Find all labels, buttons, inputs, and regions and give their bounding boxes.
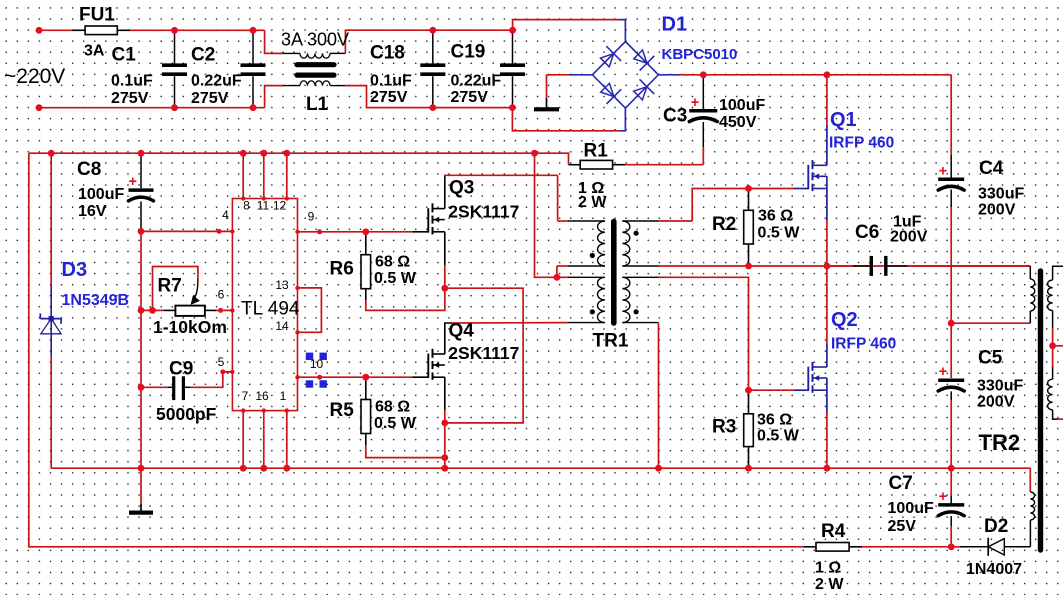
svg-text:0.5 W: 0.5 W	[758, 225, 801, 242]
svg-text:R1: R1	[584, 141, 609, 162]
svg-text:275V: 275V	[370, 89, 408, 106]
svg-text:36 Ω: 36 Ω	[758, 208, 793, 225]
svg-text:25V: 25V	[888, 518, 917, 535]
svg-text:275V: 275V	[451, 89, 489, 106]
svg-text:16V: 16V	[78, 203, 107, 220]
svg-text:14: 14	[275, 319, 289, 333]
svg-text:C9: C9	[169, 359, 193, 380]
svg-text:+: +	[691, 95, 699, 111]
svg-text:100uF: 100uF	[719, 97, 765, 114]
svg-text:3A: 3A	[84, 43, 105, 60]
svg-text:Q3: Q3	[449, 178, 474, 199]
svg-text:1N5349B: 1N5349B	[62, 292, 130, 309]
svg-text:+: +	[939, 163, 947, 179]
svg-text:TL 494: TL 494	[241, 299, 300, 320]
svg-text:D3: D3	[62, 259, 88, 281]
svg-text:5: 5	[218, 355, 225, 369]
svg-text:2SK1117: 2SK1117	[448, 202, 519, 222]
svg-text:4: 4	[222, 208, 229, 222]
svg-text:~220V: ~220V	[4, 65, 65, 88]
svg-text:1N4007: 1N4007	[966, 561, 1022, 578]
svg-text:100uF: 100uF	[78, 186, 124, 203]
svg-text:450V: 450V	[719, 114, 757, 131]
svg-text:+: +	[939, 489, 947, 505]
svg-text:1-10kOm: 1-10kOm	[153, 317, 227, 337]
svg-text:13: 13	[275, 278, 289, 292]
svg-text:R2: R2	[712, 214, 736, 235]
svg-text:330uF: 330uF	[978, 186, 1024, 203]
svg-text:R7: R7	[158, 276, 182, 297]
svg-text:200V: 200V	[890, 229, 928, 246]
svg-text:0.5 W: 0.5 W	[374, 415, 417, 432]
svg-text:C2: C2	[191, 45, 215, 66]
svg-text:0.5 W: 0.5 W	[757, 428, 800, 445]
svg-text:D1: D1	[662, 14, 688, 36]
svg-text:KBPC5010: KBPC5010	[662, 46, 738, 63]
svg-text:10: 10	[310, 357, 324, 371]
svg-text:R3: R3	[712, 417, 736, 438]
svg-text:12: 12	[273, 199, 287, 213]
svg-text:0.5 W: 0.5 W	[374, 270, 417, 287]
svg-text:275V: 275V	[191, 90, 229, 107]
svg-text:5000pF: 5000pF	[156, 404, 217, 424]
svg-text:0.22uF: 0.22uF	[451, 73, 502, 90]
svg-text:275V: 275V	[111, 90, 149, 107]
svg-text:68 Ω: 68 Ω	[375, 254, 410, 271]
svg-text:2 W: 2 W	[578, 194, 607, 211]
svg-text:+: +	[129, 174, 137, 190]
svg-text:C18: C18	[370, 43, 405, 64]
svg-text:C7: C7	[889, 473, 913, 494]
svg-text:R5: R5	[330, 400, 355, 421]
svg-text:8: 8	[243, 199, 250, 213]
svg-text:IRFP 460: IRFP 460	[831, 336, 896, 353]
svg-text:C1: C1	[112, 45, 137, 66]
svg-text:C3: C3	[663, 106, 687, 127]
svg-text:C6: C6	[855, 222, 879, 243]
svg-text:200V: 200V	[977, 394, 1015, 411]
svg-text:TR2: TR2	[979, 430, 1021, 455]
svg-text:3A 300V: 3A 300V	[281, 30, 349, 50]
svg-text:2SK1117: 2SK1117	[448, 343, 519, 363]
svg-text:C8: C8	[77, 159, 101, 180]
svg-text:6: 6	[218, 288, 225, 302]
svg-text:C4: C4	[979, 158, 1004, 179]
svg-text:0.22uF: 0.22uF	[191, 73, 242, 90]
svg-text:1 Ω: 1 Ω	[815, 560, 841, 577]
svg-text:Q4: Q4	[449, 321, 475, 342]
svg-text:FU1: FU1	[79, 5, 115, 26]
svg-text:1: 1	[280, 389, 287, 403]
svg-text:R6: R6	[330, 259, 354, 280]
svg-text:D2: D2	[984, 516, 1008, 537]
svg-text:TR1: TR1	[593, 331, 629, 352]
svg-text:IRFP 460: IRFP 460	[829, 135, 894, 152]
svg-text:Q2: Q2	[831, 309, 858, 331]
svg-text:L1: L1	[306, 94, 329, 115]
svg-text:9: 9	[308, 210, 315, 224]
svg-text:Q1: Q1	[830, 109, 857, 131]
svg-text:2 W: 2 W	[815, 576, 844, 593]
svg-text:0.1uF: 0.1uF	[111, 73, 153, 90]
svg-text:36 Ω: 36 Ω	[757, 412, 792, 429]
svg-text:0.1uF: 0.1uF	[370, 73, 412, 90]
svg-text:+: +	[939, 364, 947, 380]
svg-text:200V: 200V	[978, 202, 1016, 219]
svg-text:C19: C19	[451, 42, 486, 63]
svg-text:11: 11	[257, 199, 270, 213]
svg-text:68 Ω: 68 Ω	[375, 399, 410, 416]
svg-text:7: 7	[242, 389, 249, 403]
svg-text:100uF: 100uF	[888, 500, 934, 517]
svg-text:R4: R4	[821, 521, 846, 542]
svg-text:C5: C5	[978, 348, 1003, 369]
svg-text:16: 16	[255, 389, 269, 403]
svg-text:330uF: 330uF	[977, 378, 1023, 395]
